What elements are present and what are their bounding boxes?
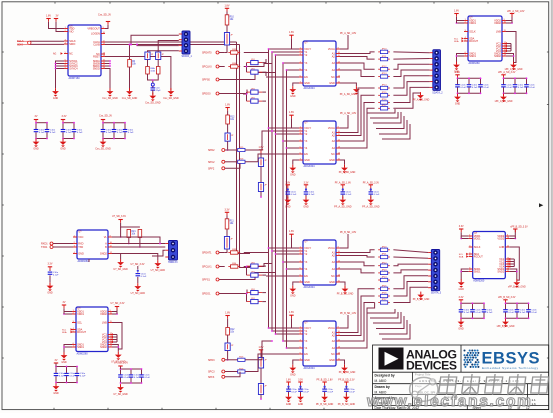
- svg-text:0.1uF: 0.1uF: [531, 312, 537, 314]
- svg-text:xPF_B_SD_3.3V: xPF_B_SD_3.3V: [498, 297, 516, 299]
- vertical jumper JPB2 below UB: [258, 183, 267, 192]
- svg-text:3.3V: 3.3V: [298, 380, 303, 382]
- svg-text:Cxx_SD_GND: Cxx_SD_GND: [102, 97, 118, 100]
- svg-text:xPF_B_SD_GND: xPF_B_SD_GND: [497, 326, 515, 328]
- svg-text:PF_A_SD_GND: PF_A_SD_GND: [340, 93, 357, 96]
- jumper JP8 section B: [224, 237, 233, 250]
- svg-text:0.1uF: 0.1uF: [309, 194, 315, 196]
- ground U3 right: [111, 352, 126, 364]
- svg-text:RCOUT: RCOUT: [469, 40, 478, 43]
- wire input 3: [219, 273, 276, 280]
- svg-text:0.1uF: 0.1uF: [460, 87, 466, 89]
- svg-text:VDD1: VDD1: [77, 313, 84, 316]
- svg-text:PF_B_SD_1.8V: PF_B_SD_1.8V: [316, 380, 333, 382]
- wire U3 SND pins to gnd: [64, 345, 72, 353]
- capacitor C_ML2: [137, 266, 139, 270]
- svg-text:ADM3260: ADM3260: [473, 280, 485, 283]
- svg-text:EN: EN: [304, 275, 308, 278]
- power 1.8V U1: [46, 15, 51, 22]
- ground U2 cap2: [131, 283, 146, 295]
- resistor RB7: [378, 293, 390, 298]
- svg-text:U?_SD_3.3V: U?_SD_3.3V: [114, 361, 128, 364]
- svg-text:SYNC4: SYNC4: [69, 67, 78, 70]
- svg-text:3.3V: 3.3V: [459, 225, 464, 228]
- svg-text:VIO: VIO: [69, 30, 73, 33]
- wire bundle loop below PB: [367, 309, 395, 313]
- svg-text:JP10: JP10: [382, 49, 388, 51]
- svg-text:0.1uF: 0.1uF: [117, 132, 123, 134]
- power UD: [289, 311, 294, 318]
- jumper pair JP4/JP5 section A: [247, 59, 263, 65]
- svg-text:GND: GND: [298, 403, 304, 406]
- wire input 1: [219, 252, 225, 254]
- power ADM3260 left: [459, 225, 464, 232]
- ground single cap PF_A_SD_3.3V: [362, 197, 380, 209]
- ground cap group R2b: [502, 319, 509, 328]
- svg-text:PF_A_SD_GND: PF_A_SD_GND: [339, 171, 356, 174]
- resistor RA3: [378, 66, 390, 71]
- wire power to VDD pins ADM3260: [461, 232, 469, 236]
- svg-text:HDR1X3: HDR1X3: [168, 261, 178, 264]
- svg-text:PF_B_SD_GND: PF_B_SD_GND: [337, 294, 354, 296]
- svg-text:JP25: JP25: [382, 286, 388, 288]
- ground Cxx_SD_GND 1: [102, 88, 118, 100]
- svg-text:JP24: JP24: [382, 277, 388, 279]
- svg-text:ADG3304: ADG3304: [304, 87, 316, 90]
- svg-text:LNB: LNB: [499, 246, 504, 249]
- wire UA left pin feeds: [269, 48, 300, 50]
- wire input 3: [219, 73, 276, 80]
- svg-text:M. ABIO: M. ABIO: [375, 379, 387, 383]
- svg-text:EN: EN: [304, 153, 308, 156]
- wire UD left pin feeds: [269, 327, 300, 329]
- ground single cap 3.3V: [303, 197, 310, 209]
- wire input 2: [219, 266, 225, 268]
- wire input 4: [219, 290, 247, 294]
- svg-text:VCCA: VCCA: [328, 127, 335, 130]
- ground PA: [417, 92, 424, 101]
- svg-text:SDIO: SDIO: [17, 43, 23, 46]
- wire power to VDD pins ADM3260: [457, 17, 465, 21]
- svg-text:Cxx_SD_3V: Cxx_SD_3V: [99, 115, 112, 118]
- wire SND2 to gnd ADM3260: [509, 269, 517, 280]
- wire trunk line x268: [268, 49, 270, 248]
- svg-text:3.3V: 3.3V: [48, 263, 53, 266]
- resistor series SPCLK0: [228, 63, 240, 68]
- ground GND CG1: [33, 139, 40, 151]
- svg-text:GND: GND: [53, 97, 59, 100]
- svg-text:Cxx_SD_GND: Cxx_SD_GND: [122, 97, 138, 100]
- power Cxx_SD_3V U1 right: [98, 13, 111, 24]
- svg-text:SND2: SND2: [494, 55, 501, 58]
- power UC: [289, 230, 294, 237]
- wire UC gnd pin: [293, 282, 299, 286]
- resistor RA5: [378, 85, 390, 90]
- ground UD right: [340, 360, 345, 365]
- svg-text:GND: GND: [458, 328, 464, 331]
- capacitor group R1a: [455, 77, 489, 94]
- svg-text:SPCLK1: SPCLK1: [202, 266, 212, 269]
- svg-text:JP12: JP12: [382, 66, 388, 68]
- power U3 cap group a: [54, 359, 58, 366]
- svg-text:0.1uF: 0.1uF: [144, 377, 150, 379]
- jumper pair JPB section B 2: [247, 289, 263, 295]
- wire U3 right power pins: [112, 307, 117, 312]
- title block frame: [373, 345, 549, 410]
- svg-text:SPC2: SPC2: [208, 161, 215, 164]
- svg-text:PF_B_SD_GND: PF_B_SD_GND: [316, 403, 334, 406]
- ground UC left: [289, 286, 296, 298]
- wire chain2 B row2 to EN: [245, 354, 266, 372]
- svg-text:VDD2: VDD2: [100, 313, 107, 316]
- pullup chain 2 resistor: [226, 328, 235, 336]
- resistor series chain2 row2: [225, 371, 238, 373]
- svg-text:JP13: JP13: [382, 73, 388, 75]
- svg-text:VCCA: VCCA: [328, 327, 335, 330]
- svg-text:xPF_A_SD_GND: xPF_A_SD_GND: [495, 100, 513, 103]
- wire U2 GND2: [112, 254, 158, 261]
- svg-text:1.8V: 1.8V: [286, 380, 291, 382]
- svg-text:xPF_A_SD_GND: xPF_A_SD_GND: [505, 68, 523, 71]
- svg-text:0.1uF: 0.1uF: [291, 194, 297, 196]
- svg-text:GND2: GND2: [100, 252, 108, 255]
- wire trunk section B verticals: [268, 248, 270, 328]
- ground U1 left: [52, 88, 59, 100]
- svg-text:ADG3304: ADG3304: [304, 165, 316, 168]
- wire U1 power feeds: [49, 22, 65, 29]
- wire chain2 row3: [225, 372, 240, 377]
- svg-text:0.1uF: 0.1uF: [80, 376, 86, 378]
- svg-text:U?_SD_GND: U?_SD_GND: [151, 269, 166, 272]
- svg-text:RCOUT: RCOUT: [77, 331, 86, 334]
- power ADM3260 left: [454, 9, 459, 16]
- resistor RA8: [378, 105, 390, 110]
- svg-text:GND: GND: [303, 206, 309, 209]
- wire bus U1 right to trunk: [105, 41, 237, 43]
- pullup chain 2 resistor: [226, 115, 235, 124]
- svg-text:SDATA_2: SDATA_2: [432, 91, 443, 94]
- wire U2 A to connector: [112, 243, 165, 245]
- resistor RA7: [378, 99, 390, 104]
- wire U3 right loop: [112, 323, 122, 350]
- resistor RB2: [378, 254, 390, 259]
- svg-text:xPF_B_SD_3.3V: xPF_B_SD_3.3V: [510, 227, 528, 229]
- svg-text:SDA: SDA: [62, 331, 67, 334]
- resistor RB6: [378, 286, 390, 291]
- svg-text:SPDAT0: SPDAT0: [202, 52, 212, 55]
- svg-text:1.8V: 1.8V: [285, 182, 290, 184]
- svg-text:0.1uF: 0.1uF: [520, 312, 526, 314]
- capacitor group U3a: [54, 366, 86, 384]
- ground single cap PF_B_SD_3.3V: [338, 394, 356, 406]
- svg-text:SND2: SND2: [497, 270, 504, 273]
- svg-text:GND: GND: [290, 374, 296, 377]
- power 3V U1: [54, 15, 59, 22]
- svg-text:0.1uF: 0.1uF: [50, 132, 56, 134]
- wire UB left pin feeds: [269, 127, 300, 129]
- svg-text:U?_SD_3.3V: U?_SD_3.3V: [131, 263, 145, 266]
- power cap group R2a: [459, 296, 464, 303]
- wire bundle UD to RCB lower: [340, 289, 375, 333]
- power cap group R1a: [455, 71, 460, 78]
- svg-text:Cxx_SD_GND: Cxx_SD_GND: [145, 102, 161, 105]
- svg-text:SND1: SND1: [474, 270, 481, 273]
- wire U2 gnd pin: [88, 259, 90, 262]
- svg-text:3.3V: 3.3V: [225, 208, 230, 211]
- svg-text:xPF_A_SD_3.3V: xPF_A_SD_3.3V: [498, 71, 516, 74]
- svg-text:ADG3304: ADG3304: [304, 367, 316, 370]
- vertical jumper JPB1 below UB: [259, 146, 264, 153]
- pullup resistor network section A: [225, 4, 230, 11]
- power 3.3V cap ML1: [48, 263, 53, 270]
- pullup chain 2 jumper: [225, 133, 234, 141]
- op IC U1 ADM7160 top-left: [64, 25, 106, 80]
- wire U2 VL right: [112, 237, 160, 244]
- power UB: [289, 111, 294, 118]
- svg-text:GND: GND: [455, 103, 461, 106]
- ground UA left: [289, 86, 296, 98]
- svg-text:0.1uF: 0.1uF: [141, 276, 147, 278]
- svg-text:0.1uF: 0.1uF: [472, 87, 478, 89]
- svg-text:AG: AG: [53, 53, 57, 56]
- ground UD left: [289, 365, 296, 377]
- svg-text:3V: 3V: [35, 115, 38, 118]
- svg-text:VCCA: VCCA: [328, 247, 335, 250]
- resistor R2 below JP1: [146, 67, 150, 75]
- ground U2 right: [151, 260, 166, 272]
- wire P1 pin1: [131, 35, 179, 44]
- svg-text:3.3V: 3.3V: [304, 182, 309, 184]
- svg-text:JP21: JP21: [382, 254, 388, 256]
- svg-text:SDIO: SDIO: [69, 43, 75, 46]
- pullup chain 2 power: [225, 312, 230, 319]
- svg-text:U?_SD_GND: U?_SD_GND: [131, 292, 146, 295]
- ground Cxx_SD_GND 3: [145, 93, 161, 105]
- ground single cap PF_A_SD_1.8V: [334, 197, 352, 209]
- capacitor group CG1: [34, 122, 56, 140]
- ground ADM3260 right: [510, 62, 517, 71]
- wire UC right pins to RCB: [340, 250, 375, 253]
- svg-text:SND1: SND1: [469, 55, 476, 58]
- wire trunk vertical bus lines: [237, 42, 251, 254]
- wire trunk line x283: [282, 63, 284, 262]
- svg-text:GND: GND: [304, 159, 310, 162]
- svg-text:TXD1: TXD1: [41, 246, 48, 249]
- ground cap group R1b: [500, 94, 507, 103]
- svg-text:GND: GND: [47, 292, 53, 295]
- resistor series chain2 row1: [225, 149, 238, 151]
- ground single cap 1.8V: [285, 394, 292, 406]
- input arrows U3 VC: [111, 333, 113, 336]
- svg-text:1.8V: 1.8V: [225, 104, 230, 107]
- jumper pair JPB section B 1: [247, 262, 263, 268]
- svg-text:PF_B_SD_1.8V: PF_B_SD_1.8V: [340, 232, 357, 234]
- watermark chinese characters: [439, 374, 550, 395]
- svg-text:JP11: JP11: [382, 56, 388, 58]
- resistor series chain2 row1: [225, 359, 238, 361]
- wire P1 pin4: [148, 51, 179, 52]
- svg-text:0.1uF: 0.1uF: [53, 274, 59, 276]
- resistor RB3: [378, 262, 390, 267]
- ground Cxx_SD_GND 2: [122, 88, 138, 100]
- svg-text:3.3V: 3.3V: [62, 115, 67, 118]
- wire U2 power stem down: [120, 227, 122, 237]
- svg-text:1.8V: 1.8V: [454, 9, 459, 12]
- svg-text:PF_A_SD_3.3V: PF_A_SD_3.3V: [363, 181, 380, 184]
- resistor RA2: [378, 56, 390, 61]
- svg-text:VDD1: VDD1: [474, 237, 481, 240]
- svg-text:JP14: JP14: [382, 85, 388, 87]
- ground U3 cap group b: [113, 384, 128, 396]
- svg-text:Cxx_SD_3V: Cxx_SD_3V: [98, 13, 111, 16]
- svg-text:R4A: R4A: [150, 67, 155, 70]
- ground U3 cap group a: [53, 383, 60, 395]
- svg-text:JP17: JP17: [382, 105, 388, 107]
- wire P2 pin3: [152, 250, 165, 256]
- capacitor group R2a: [459, 302, 493, 319]
- svg-text:Drawn by: Drawn by: [375, 385, 390, 389]
- svg-text:Designed by: Designed by: [375, 374, 395, 378]
- svg-text:0.1uF: 0.1uF: [349, 391, 355, 393]
- jumper JP1 vertical: [145, 52, 154, 60]
- svg-text:NC: NC: [331, 275, 335, 278]
- connector PB header 7pin: [428, 250, 442, 295]
- svg-text:SND1: SND1: [77, 346, 84, 349]
- svg-text:RCOUT: RCOUT: [474, 255, 483, 258]
- vertical jumper JPD1 below UD: [259, 346, 264, 353]
- ground Cxx_SD_GND CG3: [95, 139, 111, 151]
- wire UA gnd pin: [293, 83, 299, 86]
- wire chain2 A row2 to EN: [245, 154, 266, 162]
- watermark elecfans stamp: [410, 377, 438, 401]
- svg-text:GND: GND: [329, 159, 335, 162]
- ground cap group R2a: [458, 319, 465, 331]
- svg-text:SCLK: SCLK: [469, 30, 476, 33]
- svg-text:1.8V: 1.8V: [455, 71, 460, 74]
- svg-text:VCCA: VCCA: [328, 48, 335, 51]
- svg-text:SPD2: SPD2: [208, 149, 215, 152]
- svg-text:SPD3: SPD3: [208, 359, 215, 362]
- svg-text:GND: GND: [33, 148, 39, 151]
- svg-text:0.1uF: 0.1uF: [39, 132, 45, 134]
- svg-text:ADM3260: ADM3260: [77, 352, 89, 355]
- svg-text:0.1uF: 0.1uF: [328, 391, 334, 393]
- svg-text:VDD2: VDD2: [497, 237, 504, 240]
- svg-text:3V: 3V: [63, 301, 66, 304]
- svg-text:Project Title: Project Title: [415, 372, 431, 376]
- svg-text:0.1uF: 0.1uF: [529, 87, 535, 89]
- svg-text:SPC3: SPC3: [208, 371, 215, 374]
- svg-text:0.1uF: 0.1uF: [487, 312, 493, 314]
- svg-text:NC: NC: [331, 353, 335, 356]
- resistor R5 pullup: [127, 230, 136, 238]
- resistor R6 pullup: [138, 230, 142, 238]
- svg-text:GND: GND: [60, 148, 66, 151]
- svg-text:PF_A_SD_GND: PF_A_SD_GND: [334, 206, 352, 209]
- ground ADM3260 left: [458, 279, 465, 291]
- svg-text:GND: GND: [286, 403, 292, 406]
- svg-text:GND: GND: [329, 281, 335, 284]
- svg-text:SPF2: SPF2: [208, 167, 215, 170]
- svg-text:3V: 3V: [55, 359, 58, 362]
- connector P1 header 4pin: [179, 31, 193, 58]
- wire trunk line x275: [275, 55, 277, 254]
- svg-text:1.8V: 1.8V: [259, 346, 264, 349]
- wire U1 RSET pin right: [105, 57, 171, 91]
- ground UB right: [340, 160, 345, 165]
- svg-text:GND: GND: [61, 361, 67, 364]
- wire P1 pin2: [158, 41, 179, 53]
- svg-text:GND: GND: [304, 82, 310, 85]
- resistor RB1: [378, 247, 390, 252]
- wire trunk line x286: [286, 70, 288, 269]
- svg-text:0.1uF: 0.1uF: [106, 132, 112, 134]
- svg-text:0.1uF: 0.1uF: [518, 87, 524, 89]
- wire SND1 to gnd ADM3260: [461, 269, 469, 280]
- pullup chain 2 jumper: [225, 343, 234, 351]
- wire U1 right SND pins down: [105, 60, 110, 62]
- power U3 3V: [62, 301, 66, 308]
- svg-text:GND: GND: [459, 288, 465, 291]
- ground UB left: [289, 165, 296, 177]
- svg-text:SPDO0: SPDO0: [202, 93, 211, 96]
- svg-text:SNDD: SNDD: [93, 67, 100, 70]
- ground ADM3260 right: [513, 279, 520, 288]
- wire bundle UB to RCA lower: [340, 88, 375, 133]
- op IC UD level translator: [299, 321, 341, 370]
- wire U3 power to pins: [64, 308, 72, 311]
- resistor R3 below JP2: [156, 67, 160, 75]
- capacitor group CG3: [101, 122, 134, 140]
- svg-text:GND: GND: [304, 359, 310, 362]
- svg-text:0.1uF: 0.1uF: [475, 312, 481, 314]
- wire U1 VREG to power: [105, 25, 108, 29]
- svg-text:LNB: LNB: [496, 30, 501, 33]
- svg-text:1.6: 1.6: [532, 402, 537, 406]
- svg-text:DEVICES: DEVICES: [406, 358, 457, 372]
- resistor RA1: [378, 49, 390, 54]
- resistor RA6: [378, 92, 390, 97]
- input arrows ADM3260 VC: [505, 42, 507, 45]
- svg-text:0.1uF: 0.1uF: [508, 312, 514, 314]
- svg-text:GND: GND: [329, 82, 335, 85]
- svg-text:LNB: LNB: [102, 321, 107, 324]
- ground UA right: [340, 83, 356, 86]
- resistor series SPDAT1: [228, 249, 240, 254]
- jumper pair JP6/JP7 section A: [247, 88, 263, 94]
- svg-text:0.1uF: 0.1uF: [346, 194, 352, 196]
- svg-text:PF_A_SD_GND: PF_A_SD_GND: [362, 206, 380, 209]
- capacitor group R1b: [501, 77, 535, 94]
- svg-text:GND: GND: [53, 392, 59, 395]
- resistor series SPDAT0: [228, 49, 240, 54]
- svg-text:GND: GND: [290, 95, 296, 98]
- ground UC right: [340, 282, 345, 286]
- svg-text:SPDO1: SPDO1: [202, 293, 211, 296]
- wire UB gnd pin: [293, 160, 299, 165]
- svg-text:NC: NC: [69, 52, 73, 55]
- op IC right ADM3260: [464, 16, 507, 65]
- logo EBSYS: [463, 349, 539, 369]
- ground single cap 1.8V: [284, 197, 291, 209]
- svg-text:U?_SD_GND: U?_SD_GND: [113, 268, 128, 271]
- svg-text:PF_B_SD_3.3V: PF_B_SD_3.3V: [338, 380, 355, 382]
- ground GND CG2: [60, 139, 67, 151]
- wire bundle loop below PA: [367, 109, 395, 113]
- wire right power pins ADM3260: [509, 229, 515, 236]
- right border centering arrow: [539, 203, 543, 207]
- ground GND ML1: [47, 283, 54, 295]
